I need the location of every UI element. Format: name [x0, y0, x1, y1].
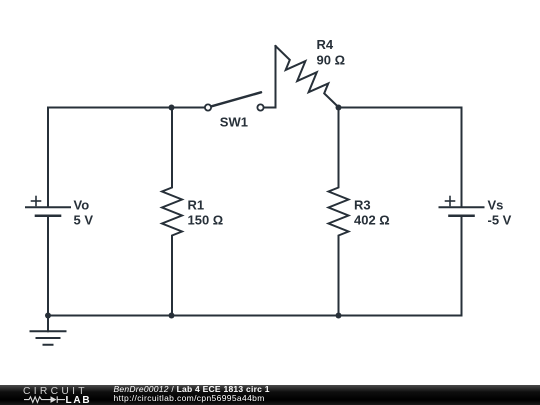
- svg-text:150 Ω: 150 Ω: [188, 213, 224, 228]
- svg-text:90 Ω: 90 Ω: [317, 53, 346, 68]
- node junction R1 top: [169, 105, 175, 111]
- svg-text:-5 V: -5 V: [488, 213, 512, 228]
- switch SW1 blade: [212, 92, 262, 106]
- svg-text:5 V: 5 V: [74, 213, 94, 228]
- label Vo value: [74, 197, 94, 227]
- label R4 value: [317, 37, 346, 68]
- battery Vs plus sign: [446, 197, 455, 206]
- resistor R1: [162, 108, 182, 316]
- wire right rail lower: [461, 216, 463, 316]
- svg-text:R1: R1: [188, 197, 205, 212]
- label Vs value: [488, 197, 512, 227]
- svg-text:Vo: Vo: [74, 197, 90, 212]
- node junction R1 bottom: [169, 313, 175, 319]
- label R1 value: [188, 197, 224, 227]
- label R3 value: [354, 197, 390, 227]
- node junction ground: [45, 313, 51, 319]
- svg-text:R3: R3: [354, 197, 371, 212]
- wire left rail lower: [47, 216, 49, 316]
- svg-text:SW1: SW1: [220, 115, 248, 130]
- resistor R3: [329, 108, 349, 316]
- svg-text:Vs: Vs: [488, 197, 504, 212]
- wire top-left rail: [48, 108, 205, 208]
- battery Vo plus sign: [32, 197, 41, 206]
- node junction R3 top: [336, 105, 342, 111]
- wire bottom horizontal: [48, 315, 462, 317]
- footer bar: [0, 385, 540, 405]
- node junction R3 bottom: [336, 313, 342, 319]
- battery Vo plates: [26, 207, 70, 216]
- resistor R4: [276, 46, 339, 107]
- battery Vs plates: [440, 207, 484, 216]
- svg-text:402 Ω: 402 Ω: [354, 213, 390, 228]
- svg-text:R4: R4: [317, 37, 334, 52]
- ground: [31, 316, 66, 345]
- switch SW1 contacts: [205, 104, 264, 110]
- logo doodle resistor and diode: [24, 396, 65, 403]
- wire switch to R4 riser: [264, 46, 276, 108]
- wire top-right rail: [339, 108, 462, 208]
